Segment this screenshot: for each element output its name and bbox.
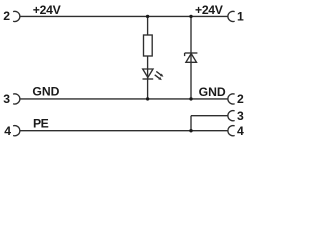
node junction +24V / resistor branch xyxy=(146,15,149,18)
node junction +24V / zener branch xyxy=(189,15,192,18)
svg-text:2: 2 xyxy=(3,9,10,23)
wire to terminal 3 right xyxy=(191,115,228,117)
svg-text:+24V: +24V xyxy=(33,3,62,17)
svg-text:GND: GND xyxy=(199,85,226,99)
svg-text:2: 2 xyxy=(237,92,244,106)
LED D1 xyxy=(143,69,164,80)
zener diode Z xyxy=(185,53,198,62)
wire zener branch xyxy=(190,16,192,99)
wire GND bus xyxy=(20,98,228,100)
node junction GND / zener branch xyxy=(189,97,192,100)
terminal L2 xyxy=(13,11,20,21)
svg-text:GND: GND xyxy=(32,85,59,99)
terminal R4 xyxy=(228,126,235,136)
wire vertical PE link xyxy=(190,116,192,131)
resistor R xyxy=(144,35,153,56)
svg-text:1: 1 xyxy=(237,10,244,24)
svg-text:3: 3 xyxy=(3,92,10,106)
wire resistor-LED branch lower xyxy=(147,56,149,99)
terminal L3 xyxy=(13,94,20,104)
terminal R2 xyxy=(228,94,235,104)
wire +24V bus xyxy=(20,15,228,17)
wire resistor-LED branch upper xyxy=(147,16,149,35)
node junction PE / link xyxy=(189,129,192,132)
terminal R1 xyxy=(228,11,235,21)
svg-text:4: 4 xyxy=(237,124,244,138)
terminal L4 xyxy=(13,126,20,136)
svg-text:+24V: +24V xyxy=(195,3,224,17)
svg-text:4: 4 xyxy=(4,124,11,138)
svg-text:PE: PE xyxy=(33,116,49,130)
node junction GND / resistor branch xyxy=(146,97,149,100)
terminal R3 xyxy=(228,111,235,121)
wire PE bus xyxy=(20,130,228,132)
svg-text:3: 3 xyxy=(237,109,244,123)
